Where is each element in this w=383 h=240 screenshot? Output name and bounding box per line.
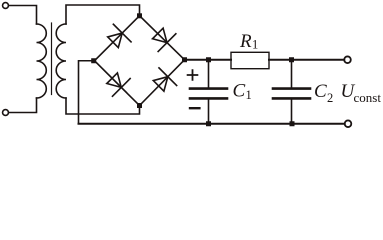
capacitor C1 lead top — [208, 60, 210, 88]
bridge edge bottom-right — [140, 60, 185, 106]
bottom rail (negative) — [79, 123, 345, 125]
junction node C1 top — [206, 57, 211, 62]
wire secondary top to bridge apex — [66, 5, 140, 24]
junction node at bridge right — [182, 57, 187, 62]
bridge edge top-right — [140, 16, 185, 60]
bridge edge top-left — [95, 16, 140, 61]
input terminal bottom-left — [3, 110, 9, 116]
svg-text:2: 2 — [327, 91, 333, 105]
junction node C2 bottom — [290, 121, 295, 126]
svg-text:1: 1 — [246, 88, 252, 102]
capacitor C2 lead top — [291, 60, 293, 88]
resistor R1 body — [231, 52, 269, 68]
svg-text:1: 1 — [252, 38, 258, 52]
svg-text:C: C — [233, 81, 246, 102]
plus polarity mark at C1 — [188, 70, 198, 80]
junction node C2 top — [289, 57, 294, 62]
junction node C1 bottom — [206, 121, 211, 126]
svg-text:const: const — [354, 90, 382, 105]
junction node at bridge apex — [137, 13, 142, 18]
bridge edge bottom-left — [95, 61, 140, 106]
top rail: R1 to output — [269, 59, 344, 61]
wire input bottom to primary — [9, 98, 37, 113]
top rail: right node to R1 — [185, 59, 232, 61]
capacitor C1 plates — [190, 87, 227, 90]
wire input top to primary — [9, 6, 37, 25]
svg-text:R: R — [239, 31, 252, 52]
transformer core — [51, 23, 53, 95]
diode VD2 (top node to right node) — [149, 25, 176, 52]
input terminal top-left — [3, 3, 9, 9]
capacitor C2 lead bottom — [291, 100, 293, 124]
diode VD3 (left node to bottom node) — [103, 69, 130, 96]
transformer T primary winding — [37, 24, 47, 98]
junction node at bridge bottom — [137, 103, 142, 108]
diode VD1 (left node to top node) — [104, 24, 131, 51]
output terminal bottom-right — [345, 120, 352, 127]
capacitor C1 lead bottom — [208, 100, 210, 124]
wire secondary bottom to bridge bottom — [66, 98, 140, 114]
junction node at bridge left — [91, 58, 96, 63]
diode VD4 (bottom node to right node) — [150, 68, 177, 95]
minus polarity mark at C1 — [190, 107, 199, 109]
transformer T secondary winding — [56, 24, 66, 98]
output terminal top-right — [344, 56, 351, 63]
capacitor C2 plates — [273, 87, 310, 90]
svg-text:C: C — [314, 81, 327, 102]
wire bridge left node to bottom rail — [79, 61, 95, 124]
